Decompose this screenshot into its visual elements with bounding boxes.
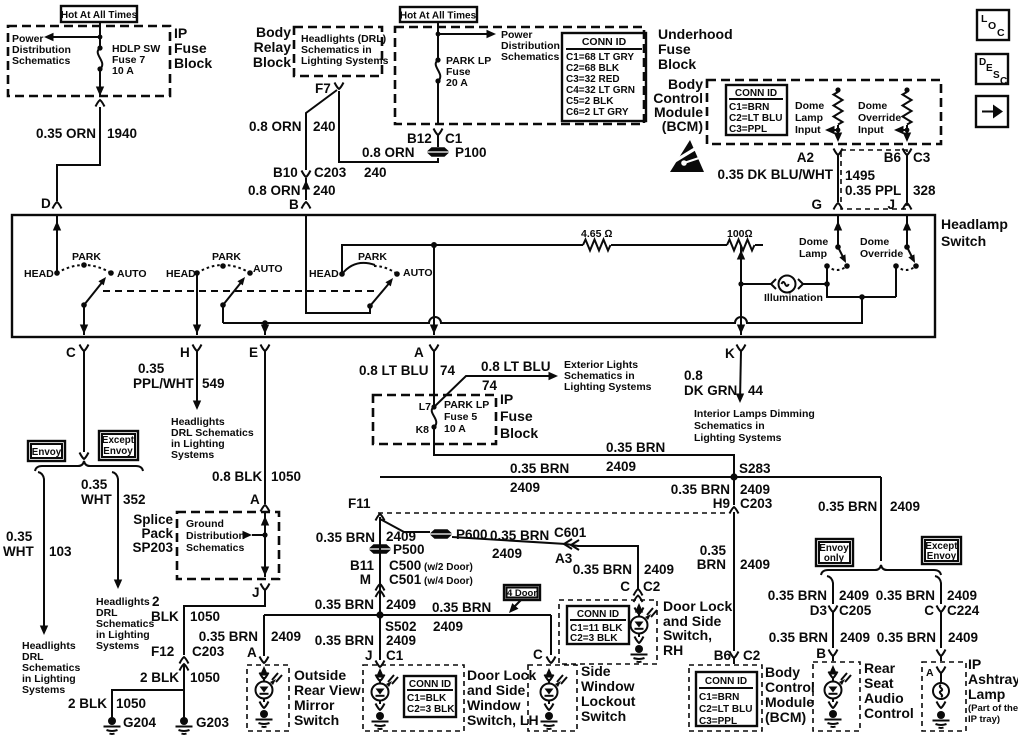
svg-text:WHT: WHT	[81, 492, 112, 507]
wire S283 down to H9	[671, 477, 773, 511]
svg-text:2409: 2409	[890, 499, 920, 514]
svg-text:0.8 LT BLU: 0.8 LT BLU	[481, 359, 551, 374]
svg-text:74: 74	[440, 363, 456, 378]
wire B12 to P100	[437, 135, 439, 147]
svg-text:C: C	[533, 647, 543, 662]
switch 1 HEAD/PARK/AUTO	[24, 251, 147, 308]
svg-text:0.35 BRN: 0.35 BRN	[877, 630, 936, 645]
svg-text:B12: B12	[407, 131, 432, 146]
wire label 0.8 ORN 240	[249, 119, 336, 134]
svg-text:and Side: and Side	[467, 682, 526, 698]
svg-text:Hot At All Times: Hot At All Times	[61, 10, 138, 21]
svg-text:Relay: Relay	[254, 39, 292, 55]
svg-text:F12: F12	[151, 644, 174, 659]
svg-text:0.35 BRN: 0.35 BRN	[769, 630, 828, 645]
svg-text:C6=2 LT GRY: C6=2 LT GRY	[566, 107, 629, 118]
svg-text:Dome: Dome	[795, 100, 824, 112]
wire H9 to B6 BCM	[697, 512, 770, 651]
svg-text:0.35 BRN: 0.35 BRN	[490, 528, 549, 543]
wire switch1 pivot to C with down arrow	[80, 305, 88, 335]
svg-text:PPL/WHT: PPL/WHT	[133, 376, 194, 391]
IP fuse block (dashed)	[8, 26, 170, 96]
svg-text:Control: Control	[765, 679, 815, 695]
svg-text:328: 328	[913, 183, 936, 198]
svg-text:2 BLK: 2 BLK	[68, 696, 107, 711]
wire label 2 BLK 1050 (G203)	[140, 670, 220, 685]
svg-text:44: 44	[748, 383, 764, 398]
label Body Control Module (BCM)	[653, 76, 703, 134]
branch wire Except Envoy (C224)	[876, 576, 980, 618]
svg-text:0.8 ORN: 0.8 ORN	[362, 145, 415, 160]
conn-id table (BCM bottom)	[696, 672, 757, 727]
text Dome Override Input	[858, 100, 901, 136]
svg-text:Lamp: Lamp	[799, 248, 827, 260]
svg-text:Switch: Switch	[581, 708, 626, 724]
wire label 0.35 BRN 2409 (to door lock RH)	[573, 562, 674, 577]
wire label 0.35 ORN 1940	[36, 126, 137, 141]
text Dome Lamp Input	[795, 100, 824, 136]
wire below fuse with down arrow	[96, 71, 104, 96]
svg-text:HEAD: HEAD	[24, 268, 54, 280]
body relay block (dashed)	[294, 27, 382, 76]
svg-text:Envoy: Envoy	[32, 447, 62, 458]
svg-text:74: 74	[482, 378, 498, 393]
svg-text:Envoy: Envoy	[103, 446, 133, 457]
branch wire Except Envoy (0.35 WHT 352)	[81, 472, 146, 589]
svg-text:J: J	[252, 585, 260, 600]
svg-text:BRN: BRN	[697, 557, 726, 572]
label IP Fuse Block 2	[500, 391, 538, 441]
resistor dome lamp input	[825, 87, 843, 142]
svg-text:DK GRN: DK GRN	[684, 383, 737, 398]
svg-text:0.35: 0.35	[138, 361, 165, 376]
svg-text:C205: C205	[839, 603, 872, 618]
svg-text:0.35 BRN: 0.35 BRN	[315, 633, 374, 648]
splice P500	[369, 542, 425, 557]
svg-text:1050: 1050	[190, 670, 220, 685]
dashed connector line C203	[378, 512, 726, 514]
svg-text:Ground: Ground	[186, 518, 224, 530]
svg-text:2409: 2409	[740, 557, 770, 572]
svg-text:C1: C1	[386, 648, 404, 663]
svg-text:0.35 PPL: 0.35 PPL	[845, 183, 901, 198]
connector B6 / C3	[884, 149, 931, 166]
svg-text:0.8 LT BLU: 0.8 LT BLU	[359, 363, 429, 378]
option brace right	[821, 565, 941, 575]
svg-text:20 A: 20 A	[446, 77, 468, 89]
branch wire Envoy only (D3)	[768, 576, 872, 618]
svg-text:B6: B6	[714, 648, 732, 663]
svg-text:AUTO: AUTO	[117, 268, 147, 280]
svg-text:Systems: Systems	[171, 449, 214, 461]
node E below box	[249, 345, 270, 361]
wire F7 to B (diagonal + vertical)	[306, 90, 337, 170]
svg-text:0.35 BRN: 0.35 BRN	[316, 530, 375, 545]
wire label 0.35 BRN 2409 (K8 run)	[606, 440, 665, 474]
svg-text:Schematics: Schematics	[501, 51, 560, 63]
label Body Relay Block	[253, 24, 291, 70]
svg-text:Fuse: Fuse	[500, 408, 533, 424]
splice P100	[362, 145, 487, 180]
connector B12 C1	[407, 129, 463, 147]
label Headlamp Switch	[941, 216, 1008, 249]
svg-text:HEAD: HEAD	[166, 268, 196, 280]
wire A vertical to exit	[430, 245, 438, 335]
svg-text:D3: D3	[810, 603, 828, 618]
svg-text:Fuse 5: Fuse 5	[444, 411, 477, 423]
svg-text:C2=3 BLK: C2=3 BLK	[570, 633, 618, 644]
svg-text:2409: 2409	[839, 588, 869, 603]
svg-text:C1=BLK: C1=BLK	[407, 693, 447, 704]
svg-text:Rear: Rear	[864, 660, 896, 676]
outside rear view mirror switch box (dashed)	[247, 665, 289, 731]
svg-text:IP tray): IP tray)	[968, 714, 1000, 725]
door lock and side window switch LH box (dashed)	[363, 665, 464, 731]
svg-text:P100: P100	[455, 145, 487, 160]
svg-text:352: 352	[123, 492, 146, 507]
svg-text:PARK: PARK	[358, 251, 387, 263]
wire K8 to S283	[434, 427, 734, 477]
hot-at-all-times box 1	[61, 6, 138, 22]
switch 3 HEAD/PARK/AUTO (in PARK)	[309, 251, 433, 309]
svg-text:C224: C224	[947, 603, 980, 618]
wire S502 to door lock LH	[315, 615, 416, 667]
svg-text:1495: 1495	[845, 168, 876, 183]
svg-text:AUTO: AUTO	[253, 263, 283, 275]
svg-text:A: A	[926, 667, 934, 679]
svg-text:240: 240	[313, 119, 336, 134]
Envoy option box	[28, 441, 65, 461]
wire label 0.35 BRN 2409 (S502 right)	[432, 600, 491, 634]
svg-text:Lighting Systems: Lighting Systems	[694, 432, 782, 444]
svg-text:2409: 2409	[386, 597, 416, 612]
connector C/C2 into door lock RH	[620, 579, 660, 602]
svg-text:C: C	[620, 579, 630, 594]
svg-text:Fuse: Fuse	[174, 40, 207, 56]
label Outside Rear View Mirror Switch	[294, 667, 361, 728]
node A into splice pack	[250, 492, 270, 512]
wire C224 to ashtray lamp	[877, 612, 978, 661]
svg-text:Seat: Seat	[864, 675, 894, 691]
svg-text:K8: K8	[416, 424, 430, 436]
svg-text:Override: Override	[858, 112, 901, 124]
svg-text:Switch: Switch	[294, 712, 339, 728]
svg-text:0.35: 0.35	[81, 477, 108, 492]
text headlights DRL schematics (mid)	[96, 596, 155, 652]
headlamp switch box	[12, 215, 935, 337]
wire from hot box into fuse block	[99, 22, 101, 48]
wire B6 to J	[906, 155, 908, 202]
svg-text:0.8 BLK: 0.8 BLK	[212, 469, 263, 484]
arrow to power distribution schematics (right)	[436, 30, 496, 38]
fuse PARK LP Fuse 5 10A	[416, 399, 490, 436]
switch 2 HEAD/PARK/AUTO	[166, 251, 283, 308]
door lock RH lamp	[631, 603, 658, 662]
svg-text:K: K	[725, 346, 735, 361]
svg-text:CONN ID: CONN ID	[582, 36, 627, 48]
label Rear Seat Audio Control	[864, 660, 914, 721]
svg-text:Input: Input	[858, 124, 884, 136]
svg-text:S: S	[993, 70, 1000, 81]
svg-text:Hot At All Times: Hot At All Times	[400, 11, 477, 22]
svg-text:C500: C500	[389, 558, 421, 573]
wire label 0.35 BRN 2409 (above S502)	[315, 597, 416, 612]
wire P600 to C601	[452, 537, 638, 590]
svg-text:0.35 BRN: 0.35 BRN	[671, 482, 730, 497]
svg-text:C: C	[66, 345, 76, 360]
svg-text:S502: S502	[385, 619, 417, 634]
svg-text:G: G	[811, 197, 822, 212]
svg-text:G203: G203	[196, 715, 230, 730]
connector at fuse block exit	[96, 100, 105, 107]
svg-text:A: A	[247, 645, 257, 660]
svg-text:C: C	[924, 603, 934, 618]
svg-text:RH: RH	[663, 642, 683, 658]
svg-text:2409: 2409	[606, 459, 636, 474]
svg-text:0.35 BRN: 0.35 BRN	[510, 461, 569, 476]
fuse HDLP SW Fuse 7 10A	[97, 45, 102, 71]
branch wire Envoy (0.35 WHT 103)	[3, 472, 72, 635]
svg-text:Headlamp: Headlamp	[941, 216, 1008, 232]
wire label 0.35 PPL 328	[845, 183, 936, 198]
svg-text:CONN ID: CONN ID	[577, 609, 619, 620]
svg-text:C2=68 BLK: C2=68 BLK	[566, 63, 620, 74]
wire H from HEAD2 with down arrow	[193, 273, 201, 335]
svg-text:0.35 BRN: 0.35 BRN	[573, 562, 632, 577]
svg-text:IP: IP	[500, 391, 513, 407]
svg-text:Block: Block	[253, 54, 291, 70]
side window lockout switch box (dashed)	[528, 665, 577, 731]
node F11	[348, 496, 385, 521]
door lock and side switch RH box (dashed)	[559, 600, 657, 664]
svg-text:C1=68 LT GRY: C1=68 LT GRY	[566, 52, 634, 63]
dome lamp switch	[799, 216, 850, 287]
mechanical linkage dashed line	[103, 290, 378, 292]
wire switch2 pivot to internal bus	[222, 305, 224, 323]
splice S502 with horizontal run	[264, 611, 551, 634]
conn-id table (door lock LH)	[404, 676, 456, 717]
wire to exterior lights arrow	[434, 359, 558, 407]
svg-text:C501: C501	[389, 572, 422, 587]
svg-text:B11: B11	[350, 558, 375, 573]
svg-text:(w/2 Door): (w/2 Door)	[424, 562, 473, 573]
svg-text:2409: 2409	[948, 630, 978, 645]
wire HEAD3 riser to resistor rail	[342, 245, 434, 274]
svg-text:0.35 BRN: 0.35 BRN	[768, 588, 827, 603]
svg-text:0.8: 0.8	[684, 368, 703, 383]
svg-text:C3: C3	[913, 150, 931, 165]
rear seat audio lamp	[825, 665, 852, 727]
node E junction and exit arrow	[261, 320, 269, 335]
svg-text:E: E	[249, 345, 258, 360]
dashed connector box G-J	[841, 150, 907, 209]
svg-text:Illumination: Illumination	[764, 292, 823, 304]
svg-text:WHT: WHT	[3, 544, 34, 559]
body control module box (dashed)	[707, 80, 941, 144]
svg-text:H9: H9	[713, 496, 730, 511]
svg-text:Except: Except	[102, 435, 135, 446]
svg-text:0.35 BRN: 0.35 BRN	[432, 600, 491, 615]
connector B10 C203	[273, 165, 347, 180]
node A below box	[414, 345, 439, 361]
wire label 0.8 ORN 240	[248, 183, 336, 198]
svg-text:CONN ID: CONN ID	[705, 676, 747, 687]
IP ashtray lamp box (dashed)	[922, 662, 966, 731]
node C below box	[66, 345, 89, 361]
wire P100 to F7	[339, 91, 438, 162]
svg-text:C203: C203	[314, 165, 347, 180]
svg-text:Pack: Pack	[141, 526, 173, 541]
svg-text:Splice: Splice	[133, 512, 173, 527]
wire label 2 BLK 1050 (G204)	[68, 696, 146, 711]
svg-text:C203: C203	[192, 644, 225, 659]
svg-text:only: only	[824, 553, 845, 564]
svg-text:2409: 2409	[740, 482, 770, 497]
svg-text:C3=PPL: C3=PPL	[699, 716, 737, 727]
wire label 0.35 DK BLU/WHT 1495	[717, 167, 875, 183]
wire F12 to G203	[183, 665, 185, 719]
svg-text:BLK: BLK	[151, 609, 179, 624]
svg-text:Dome: Dome	[858, 100, 887, 112]
svg-text:2409: 2409	[386, 633, 416, 648]
LOC icon box	[977, 10, 1009, 40]
svg-text:A: A	[250, 492, 260, 507]
svg-text:M: M	[360, 572, 371, 587]
svg-text:Distribution: Distribution	[186, 530, 245, 542]
svg-text:2 BLK: 2 BLK	[140, 670, 179, 685]
svg-text:B: B	[289, 197, 299, 212]
svg-text:2409: 2409	[271, 629, 301, 644]
door lock LH lamp	[372, 668, 399, 729]
underhood fuse block (dashed)	[395, 27, 644, 124]
node J below splice pack	[252, 584, 270, 601]
svg-text:C: C	[997, 27, 1005, 39]
wire E down to splice pack	[212, 351, 301, 504]
Envoy only option box	[816, 539, 853, 566]
text Interior Lamps Dimming Schematics in Lighting Systems	[694, 408, 815, 444]
dome return wiring	[827, 284, 896, 300]
svg-text:O: O	[988, 20, 996, 32]
wire J to F12	[184, 590, 265, 655]
svg-text:D: D	[41, 196, 51, 211]
text Power Distribution Schematics	[501, 29, 560, 63]
svg-text:C3=32 RED: C3=32 RED	[566, 74, 620, 85]
svg-text:C2=3 BLK: C2=3 BLK	[407, 704, 455, 715]
svg-text:103: 103	[49, 544, 72, 559]
svg-text:Schematics: Schematics	[12, 55, 71, 67]
ground G204	[104, 715, 157, 734]
wire D to HEAD1 with up arrow	[53, 216, 61, 273]
svg-text:SP203: SP203	[132, 540, 173, 555]
node B	[289, 197, 311, 212]
svg-text:Lighting Systems: Lighting Systems	[564, 381, 652, 393]
svg-text:Window: Window	[581, 678, 635, 694]
ashtray lamp bulb	[926, 667, 950, 729]
text Exterior Lights Schematics in Lighting Systems	[564, 359, 652, 393]
connector F12 C203	[151, 644, 225, 671]
svg-text:2409: 2409	[492, 546, 522, 561]
svg-text:C2=LT BLU: C2=LT BLU	[729, 113, 782, 124]
node K below box	[725, 345, 746, 362]
svg-text:Lamp: Lamp	[795, 112, 823, 124]
conn-id table (door lock RH)	[567, 606, 629, 644]
resistor dome override input	[894, 87, 912, 142]
lockout switch lamp	[541, 668, 568, 729]
svg-text:C1=BRN: C1=BRN	[729, 102, 769, 113]
svg-text:2: 2	[152, 594, 160, 609]
svg-text:0.35 BRN: 0.35 BRN	[315, 597, 374, 612]
wire S502 right branch to lockout switch	[533, 615, 556, 663]
svg-text:Lighting Systems: Lighting Systems	[301, 55, 389, 67]
internal bus wire with hops at A and K	[223, 297, 862, 323]
svg-text:Audio: Audio	[864, 690, 904, 706]
svg-text:F7: F7	[315, 81, 331, 96]
svg-text:0.35 ORN: 0.35 ORN	[36, 126, 96, 141]
svg-text:IP: IP	[968, 656, 981, 672]
text headlights DRL schematics (left)	[22, 640, 81, 696]
svg-text:Lamp: Lamp	[968, 686, 1005, 702]
svg-text:Systems: Systems	[96, 640, 139, 652]
connector C601/A3 double chevron	[490, 525, 587, 566]
splice S283	[730, 461, 771, 481]
svg-text:2409: 2409	[840, 630, 870, 645]
text headlights DRL schematics (H)	[171, 416, 254, 461]
wire fuse to box edge	[437, 81, 439, 124]
svg-text:C2: C2	[743, 648, 760, 663]
svg-text:H: H	[180, 345, 190, 360]
svg-text:0.8 ORN: 0.8 ORN	[249, 119, 302, 134]
splice pack SP203 box (dashed)	[177, 512, 279, 579]
svg-text:PARK: PARK	[72, 251, 101, 263]
connector B6 C2 into BCM	[714, 648, 761, 664]
svg-text:Block: Block	[658, 56, 696, 72]
svg-text:Module: Module	[765, 694, 814, 710]
wire label 0.35 BRN 2409 (S283 right)	[818, 499, 920, 514]
svg-text:C601: C601	[554, 525, 587, 540]
svg-text:CONN ID: CONN ID	[735, 88, 777, 99]
svg-text:2409: 2409	[510, 480, 540, 495]
svg-text:(Part of the: (Part of the	[968, 703, 1018, 714]
svg-text:HEAD: HEAD	[309, 268, 339, 280]
svg-text:Systems: Systems	[22, 684, 65, 696]
wire K to interior lamps dimming	[684, 351, 764, 403]
arrow to power distribution (left)	[44, 33, 102, 41]
svg-text:Body: Body	[765, 664, 800, 680]
svg-text:1050: 1050	[190, 609, 220, 624]
svg-text:1940: 1940	[107, 126, 137, 141]
svg-text:A2: A2	[797, 150, 814, 165]
svg-text:549: 549	[202, 376, 225, 391]
svg-text:100Ω: 100Ω	[727, 228, 753, 240]
label Body Control Module (BCM) bottom	[765, 664, 815, 725]
svg-text:L7: L7	[419, 401, 431, 413]
svg-text:C3=PPL: C3=PPL	[729, 124, 767, 135]
svg-text:Window: Window	[467, 697, 521, 713]
hot-at-all-times box 2	[400, 7, 477, 22]
branch wire to G204	[112, 690, 184, 718]
svg-text:G204: G204	[123, 715, 157, 730]
wire F11 down through P500	[379, 517, 381, 616]
svg-text:2409: 2409	[433, 619, 463, 634]
svg-text:Lockout: Lockout	[581, 693, 636, 709]
svg-text:E: E	[986, 63, 993, 74]
svg-text:Switch: Switch	[941, 233, 986, 249]
svg-text:B6: B6	[884, 150, 902, 165]
svg-text:0.35: 0.35	[6, 529, 33, 544]
label Side Window Lockout Switch	[581, 663, 636, 724]
svg-text:Block: Block	[174, 55, 212, 71]
svg-text:Door Lock: Door Lock	[467, 667, 536, 683]
